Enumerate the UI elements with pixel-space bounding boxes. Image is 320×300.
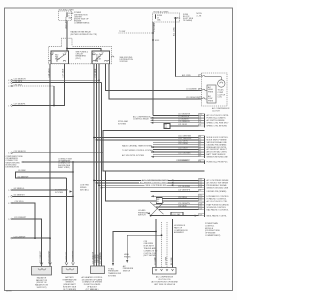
svg-text:G5 18BK/WT: G5 18BK/WT — [17, 176, 29, 178]
svg-text:C27 18DB: C27 18DB — [63, 68, 65, 77]
svg-text:ASSEMBLY: ASSEMBLY — [174, 231, 185, 234]
svg-text:C13 18DB: C13 18DB — [95, 68, 97, 77]
svg-text:C24: C24 — [199, 186, 202, 188]
svg-text:5: 5 — [8, 190, 9, 192]
fuse F17 value label — [157, 15, 163, 21]
stack row C2 — [96, 181, 205, 185]
condenser fan caption — [62, 276, 77, 291]
svg-text:CONTROL RELAY: CONTROL RELAY — [133, 118, 149, 121]
svg-text:A31 12RD: A31 12RD — [182, 74, 191, 77]
clutch connector caption — [151, 276, 178, 286]
svg-text:TO SW: TO SW — [119, 31, 125, 33]
bottom connector 2 pins — [65, 263, 75, 266]
svg-text:1: 1 — [199, 75, 200, 77]
svg-text:S135: S135 — [155, 40, 159, 42]
branch row 2 — [127, 235, 161, 259]
svg-text:SPEED CTRL PWR SPLY: SPEED CTRL PWR SPLY — [207, 122, 230, 124]
svg-text:C6: C6 — [199, 121, 201, 123]
svg-text:87: 87 — [65, 52, 67, 54]
left connector row 10 — [8, 217, 41, 266]
svg-text:30: 30 — [52, 52, 54, 54]
svg-text:SPEED CTRL RETURN: SPEED CTRL RETURN — [207, 126, 228, 128]
svg-text:C3 12DB: C3 12DB — [154, 257, 156, 265]
relay K2 wire t1 — [93, 64, 95, 266]
svg-text:C13 18DB/OR: C13 18DB/OR — [186, 97, 199, 99]
svg-text:SWITCH: SWITCH — [138, 215, 146, 217]
arrow 2 down — [126, 260, 128, 263]
fuse block dashed box right — [153, 13, 180, 22]
stack row B2 — [96, 138, 205, 141]
pin box clutch 1 — [199, 75, 202, 77]
fuse F3 value label — [68, 13, 74, 19]
splice S135 — [152, 39, 154, 41]
wire labels rotated conn1 — [40, 250, 51, 263]
wire fuse F17 down — [152, 22, 154, 116]
stack row C1 — [93, 178, 204, 182]
svg-text:C115 18LG/BK: C115 18LG/BK — [178, 153, 191, 155]
PDC dashed outline with tab — [49, 38, 112, 64]
svg-text:C27: C27 — [199, 200, 202, 202]
svg-text:A31 12RD: A31 12RD — [173, 27, 176, 36]
radiator fan motor connector box — [32, 267, 52, 276]
svg-text:DISTRIBUTION: DISTRIBUTION — [6, 167, 20, 169]
radiator fan relay K1 box — [51, 51, 69, 64]
svg-text:COMPARTMENT): COMPARTMENT) — [205, 234, 221, 237]
stack row C8 from box — [162, 199, 204, 202]
svg-text:R1: R1 — [199, 161, 201, 163]
clutch coil circle — [218, 77, 225, 88]
left connector row 1 — [8, 78, 99, 82]
svg-text:C113 18DB: C113 18DB — [178, 143, 188, 145]
svg-text:L10 S FAN: L10 S FAN — [172, 213, 181, 216]
svg-text:4 - 98: 4 - 98 — [196, 15, 201, 17]
svg-text:(P-T MANUAL): (P-T MANUAL) — [86, 288, 99, 291]
svg-text:SYSTEM: SYSTEM — [55, 192, 63, 194]
arrow 2 text below — [123, 265, 134, 273]
svg-text:TO INT WIPER CONTROL SYSTEM: TO INT WIPER CONTROL SYSTEM — [122, 150, 153, 152]
svg-text:C114 18LG: C114 18LG — [178, 148, 188, 150]
stack row B4 — [153, 143, 205, 146]
stack row B3 — [153, 140, 205, 143]
left connector row 9 — [8, 201, 35, 238]
relay K1 wire B — [13, 64, 65, 106]
stack row C10 — [156, 205, 205, 208]
clutch entry hooks — [203, 76, 208, 99]
svg-text:7: 7 — [8, 196, 9, 198]
junction dots on clutch wires — [155, 231, 157, 233]
stack row B1 — [93, 135, 204, 138]
left-center reference text with arrow — [55, 190, 72, 194]
svg-text:2: 2 — [8, 83, 9, 85]
fuse F17b stub — [174, 17, 180, 22]
svg-text:FUSED B(+) FROM PDC: FUSED B(+) FROM PDC — [207, 162, 229, 164]
clutch inner switch box — [207, 85, 216, 103]
svg-text:A16 12RD/LG: A16 12RD/LG — [64, 16, 67, 28]
svg-text:C7: C7 — [199, 125, 201, 127]
component note text block left — [6, 156, 24, 169]
PCM pin column segment C — [204, 179, 206, 217]
single row to condenser fan — [23, 161, 204, 163]
relay K2 internals — [93, 52, 110, 62]
svg-text:COIL: COIL — [218, 97, 222, 99]
svg-text:OF T FENDER): OF T FENDER) — [63, 289, 77, 291]
condenser fan wire A — [66, 178, 68, 262]
svg-text:SENSOR RETURN LINE: SENSOR RETURN LINE — [207, 156, 229, 158]
a/c compressor clutch relay K2 box — [92, 51, 110, 64]
junction dot row9v/row11 — [34, 237, 36, 239]
stack row A3 — [151, 118, 205, 121]
junction dot row11/fan wire — [49, 237, 51, 239]
row A2-A4 reference labels — [118, 115, 151, 125]
svg-text:A31: A31 — [177, 17, 180, 20]
left connector row 5 — [8, 151, 103, 155]
left connector row 7 — [8, 188, 67, 192]
svg-text:C23 12BR/WT: C23 12BR/WT — [178, 160, 191, 162]
svg-text:C23 12BR/WT: C23 12BR/WT — [40, 250, 42, 263]
riser x54 — [53, 86, 55, 106]
w/o a/c note — [80, 185, 90, 192]
PCM pin labels segment A — [207, 114, 230, 128]
svg-text:SUPPORT): SUPPORT) — [37, 287, 47, 289]
stack row C3 — [98, 183, 204, 187]
clutch connector box bottom — [153, 268, 177, 275]
svg-text:C21 18OR: C21 18OR — [178, 124, 188, 126]
svg-text:C90 18LB: C90 18LB — [178, 205, 187, 207]
svg-text:A/C SW CNTRL SYSTEM: A/C SW CNTRL SYSTEM — [122, 154, 144, 157]
wire labels clutch 2 and 3 — [186, 88, 202, 99]
stack row B9 — [122, 154, 205, 158]
dashed branch to interior — [119, 32, 154, 34]
svg-text:9: 9 — [8, 219, 9, 221]
wire fuse F17b down — [175, 22, 177, 77]
stack row B8 — [153, 152, 205, 155]
svg-text:INSET VIEW): INSET VIEW) — [58, 167, 70, 169]
svg-text:RAD FAN RLY CONTROL: RAD FAN RLY CONTROL — [207, 208, 229, 211]
svg-text:SYSTEM: SYSTEM — [120, 61, 128, 63]
junction dot diagonal — [150, 215, 152, 217]
single stack row pin — [178, 160, 228, 164]
motor symbol conn1 — [38, 269, 46, 271]
svg-text:8: 8 — [8, 203, 9, 205]
junction dot row1/v99 — [98, 79, 100, 81]
svg-text:SNGL LOW PRESS SW: SNGL LOW PRESS SW — [146, 185, 167, 187]
svg-text:C24 12DG/WT: C24 12DG/WT — [48, 250, 50, 263]
svg-text:C3 12DB/BK: C3 12DB/BK — [186, 89, 197, 91]
PCM pin column segment A — [204, 114, 206, 128]
svg-text:COMPARTMENT): COMPARTMENT) — [74, 22, 90, 25]
HVAC control box — [103, 131, 205, 172]
svg-text:F35 18RD: F35 18RD — [154, 22, 156, 31]
wire fuse F3 to relay box — [66, 21, 68, 52]
left connector row 4 — [8, 104, 26, 108]
page header note top-right — [196, 13, 202, 17]
clutch wire 1 from fuse2 — [176, 76, 202, 78]
svg-text:PRES: PRES — [208, 91, 214, 93]
svg-text:K9: K9 — [199, 155, 201, 157]
motor symbol conn2 — [66, 269, 74, 271]
svg-text:C18: C18 — [199, 214, 202, 216]
svg-text:C22 18OR/BK: C22 18OR/BK — [178, 186, 191, 188]
left connector row 8 — [8, 195, 74, 199]
wire v101 down from row2 — [101, 83, 103, 266]
svg-text:PRESS: PRESS — [124, 256, 131, 258]
arrow 2 text above — [124, 254, 131, 258]
PCM pin column segment B — [204, 136, 206, 158]
stack row A1 — [153, 113, 205, 116]
fuse block location note — [183, 14, 194, 22]
svg-text:CLUTCH: CLUTCH — [212, 110, 220, 112]
svg-text:(NOT SHOWN): (NOT SHOWN) — [144, 255, 157, 257]
bottom connector 1 pins — [40, 263, 52, 266]
svg-text:HOT AT ALL TIMES: HOT AT ALL TIMES — [154, 11, 170, 14]
stack row C7 from box — [162, 197, 204, 200]
stack row B6 — [153, 147, 205, 150]
svg-text:54890: 54890 — [6, 290, 12, 292]
svg-text:6: 6 — [8, 153, 9, 155]
feed jumper wire to relay K2 — [67, 48, 101, 51]
relay bank label — [71, 30, 98, 35]
svg-text:1: 1 — [8, 105, 9, 107]
PCM pin labels segment C — [207, 179, 230, 217]
svg-text:LEFT SIDE OF VEHICLE: LEFT SIDE OF VEHICLE — [154, 284, 176, 286]
PCM pin labels segment B — [207, 137, 229, 158]
A/C compressor clutch connector wires — [156, 219, 173, 268]
svg-text:COMP: COMP — [96, 56, 101, 58]
diagonal crossover wires — [150, 202, 163, 215]
tall note text block — [144, 241, 158, 257]
svg-text:C26: C26 — [199, 208, 202, 210]
PCM caption text — [205, 222, 221, 237]
fan switch box — [156, 197, 162, 203]
svg-text:SWITCH: SWITCH — [123, 271, 131, 273]
left connector row 11 — [11, 236, 50, 239]
stack row C12 with label box and arrow — [151, 212, 205, 216]
svg-text:GL: GL — [157, 201, 159, 203]
svg-text:C18 18DG: C18 18DG — [178, 197, 187, 199]
svg-text:SYSTEM: SYSTEM — [108, 276, 116, 278]
svg-text:2: 2 — [199, 89, 200, 91]
PDC fuse dashed box — [59, 11, 72, 21]
riser v105 to fan switch box — [106, 171, 157, 201]
fuse F17 symbol — [155, 14, 156, 19]
junction dot feed — [66, 48, 68, 50]
note text right of relay K2 — [112, 56, 134, 63]
relay K1 output wire A to fan motor — [49, 64, 51, 266]
stack row C5 — [151, 189, 205, 192]
svg-text:SYSTEM: SYSTEM — [118, 123, 126, 125]
left connector row 2 — [8, 81, 101, 85]
diag note text with arrow — [138, 209, 150, 216]
svg-text:G5 18BK/WT: G5 18BK/WT — [66, 251, 68, 263]
clutch housing note — [174, 225, 188, 234]
stack row B7 — [122, 150, 205, 153]
stack row A5 with label box — [164, 124, 205, 129]
heater control caption — [81, 276, 102, 291]
svg-text:C20 18BK/LB: C20 18BK/LB — [178, 121, 190, 123]
svg-text:(IN PWR DISTRIBUTION CTR): (IN PWR DISTRIBUTION CTR) — [71, 34, 98, 36]
A/C compressor clutch dashed box — [202, 73, 228, 106]
svg-text:BK 12BK: BK 12BK — [171, 257, 173, 265]
junction dot riser/row4 — [53, 105, 55, 107]
ground U-pair rows — [15, 170, 73, 178]
A/C-heater control connector box — [91, 266, 105, 274]
svg-text:C27 18DB/PK: C27 18DB/PK — [100, 251, 102, 264]
svg-text:C24 12DG: C24 12DG — [48, 68, 50, 77]
stack row C6 arrow — [151, 194, 205, 197]
svg-text:L10 18BK: L10 18BK — [165, 256, 167, 265]
svg-text:RADIO CENTRAL TIMER SYSTEM: RADIO CENTRAL TIMER SYSTEM — [122, 144, 152, 147]
harness note text block center-left — [58, 158, 73, 169]
svg-text:C9: C9 — [199, 190, 201, 192]
svg-text:30: 30 — [93, 52, 95, 54]
svg-text:C47 18WT/PK: C47 18WT/PK — [178, 190, 191, 192]
junction dot U-pair on v74 — [72, 171, 74, 173]
clutch caption — [212, 107, 230, 112]
branch rows to arrows — [113, 232, 156, 263]
relay K2 wire t2 — [96, 64, 98, 266]
svg-text:87: 87 — [102, 52, 104, 54]
svg-text:(W/O A/C): (W/O A/C) — [80, 188, 89, 191]
stack row C9 — [153, 203, 205, 206]
stack row C4 — [101, 186, 205, 189]
radiator fan motor caption — [35, 276, 49, 289]
svg-text:PRES: PRES — [208, 100, 214, 102]
arrow 1 text — [108, 267, 122, 277]
svg-text:UNUSED PIN (SPARE): UNUSED PIN (SPARE) — [207, 190, 227, 193]
PDC location note text block — [74, 12, 90, 25]
relay K1 internals — [49, 52, 67, 62]
arrow 1 down — [112, 263, 114, 266]
svg-text:A/C CLUTCH RLY CTRL: A/C CLUTCH RLY CTRL — [207, 200, 228, 203]
stack row A4 — [151, 121, 205, 124]
svg-text:C27 18DB/PK: C27 18DB/PK — [14, 104, 27, 106]
stack row C11 — [159, 208, 205, 211]
relay K2 wire t4 to clutch — [109, 64, 202, 99]
svg-text:(PDC): (PDC) — [76, 58, 82, 60]
svg-text:3: 3 — [8, 86, 9, 88]
junction dot dashed branch — [152, 32, 154, 34]
relay K2 wire t3 to clutch — [106, 64, 202, 91]
wire v99 down — [98, 64, 100, 266]
clutch wire rotated labels — [154, 256, 173, 265]
svg-text:SENSOR GROUND LINE: SENSOR GROUND LINE — [207, 187, 229, 189]
note text between relays — [76, 52, 89, 60]
stack row A2 — [151, 116, 205, 119]
clutch coil label inside box — [218, 89, 226, 99]
svg-text:SNGL FAN RLY CNTRL: SNGL FAN RLY CNTRL — [207, 214, 227, 217]
bundle rotated labels — [92, 251, 102, 264]
condenser fan motor connector box — [62, 267, 78, 274]
left connector row 3 dashed — [8, 84, 54, 88]
svg-text:3: 3 — [199, 98, 200, 100]
fuse F3 symbol — [67, 12, 68, 17]
svg-text:C23 12BR/WT: C23 12BR/WT — [72, 250, 74, 263]
stack row B5 — [122, 144, 205, 148]
svg-text:OF DASH): OF DASH) — [183, 19, 192, 22]
